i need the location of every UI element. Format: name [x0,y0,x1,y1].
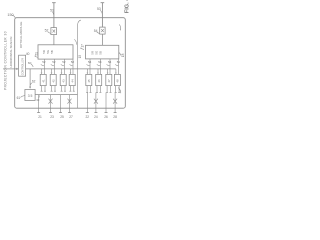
svg-text:52: 52 [62,60,66,64]
LED array block 153 right [86,45,119,59]
svg-text:FIG. 4: FIG. 4 [125,0,131,13]
svg-text:33: 33 [36,98,40,102]
svg-text:61: 61 [17,96,21,100]
svg-text:47: 47 [107,79,111,83]
svg-text:28: 28 [113,115,117,119]
svg-text:44: 44 [70,79,74,83]
svg-text:42: 42 [51,79,55,83]
svg-text:62: 62 [32,80,36,84]
feed labels right [88,60,120,64]
input arrow into controller [3,68,17,70]
svg-text:21: 21 [38,115,42,119]
svg-text:54: 54 [88,60,92,64]
svg-text:PROJECTION CONTROLLER 30: PROJECTION CONTROLLER 30 [4,31,8,90]
svg-text:41: 41 [41,79,45,83]
svg-text:HORIZONTAL SCAN IN: HORIZONTAL SCAN IN [9,37,13,68]
svg-text:24: 24 [94,115,98,119]
svg-text:48: 48 [116,79,120,83]
wire feed left big box [53,35,55,45]
driver box 161 [25,90,35,101]
svg-text:35: 35 [28,94,34,98]
emitter glyphs [41,79,119,83]
emitter box row right [86,74,92,85]
right margin leader curls [119,24,121,30]
lamp box 54 top right [100,27,105,34]
svg-text:52: 52 [71,60,75,64]
svg-text:26: 26 [104,115,108,119]
svg-text:25: 25 [60,115,64,119]
svg-text:45: 45 [87,79,91,83]
LED array block 151 left [38,45,73,59]
svg-text:51: 51 [50,9,54,13]
divider line with hook [78,20,81,108]
bottom terminal ticks [37,112,117,114]
array feed lines right group [90,59,119,74]
svg-text:CONTROLLER: CONTROLLER [22,58,25,75]
array feed lines left group [44,59,73,74]
svg-text:43: 43 [61,79,65,83]
svg-text:OPTICAL MODULE: OPTICAL MODULE [19,22,23,48]
pin legs right group [87,86,119,93]
terminal T2 top right [101,3,105,27]
svg-text:22: 22 [86,115,90,119]
output drop lines left [39,95,70,113]
svg-text:5B: 5B [99,51,103,55]
svg-text:27: 27 [69,115,73,119]
leader arc between blocks [74,39,76,44]
svg-text:23: 23 [50,115,54,119]
svg-text:51: 51 [34,52,38,56]
controller box 140 [19,55,26,76]
pin legs left group [42,86,74,92]
svg-text:54: 54 [108,60,112,64]
svg-text:40: 40 [26,52,30,56]
control drops with arrowheads right [87,69,116,73]
control wire bus [26,68,116,70]
svg-text:5B: 5B [50,50,54,54]
terminal T1 top left [52,3,56,28]
svg-text:18: 18 [121,53,125,57]
lamp box 52 top left [51,28,57,35]
optical module outer box 15 [15,18,126,109]
emitter box row left [40,74,46,85]
svg-text:52: 52 [42,60,46,64]
svg-text:46: 46 [97,79,101,83]
feed labels left [42,60,74,64]
polarizer X marks [49,99,53,104]
svg-text:15: 15 [78,55,82,59]
svg-text:54: 54 [98,60,102,64]
svg-text:52: 52 [52,60,56,64]
wire feed right big box [101,34,103,45]
svg-text:17: 17 [80,44,84,48]
com bus line [35,94,77,96]
svg-text:54: 54 [117,60,121,64]
control drops with arrowheads left [42,69,71,73]
output drop lines right [87,92,115,112]
driver drop wire [29,69,31,87]
bottom terminal labels [38,115,117,119]
